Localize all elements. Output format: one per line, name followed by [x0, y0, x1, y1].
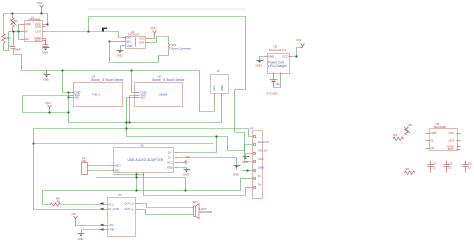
wire battery return	[274, 77, 281, 88]
svg-text:3.7V LiPo: 3.7V LiPo	[266, 92, 278, 96]
wire touch1 sig to left bus	[23, 95, 70, 97]
wire touch1 vcc drop chain	[68, 93, 70, 123]
svg-text:NC: NC	[25, 37, 29, 41]
svg-text:LiPo Charger: LiPo Charger	[268, 64, 288, 68]
battery B1	[270, 77, 278, 88]
wire U5 D+ riser	[178, 137, 217, 153]
wire vcc to chain	[23, 112, 69, 114]
wire long y195	[144, 195, 246, 197]
svg-text:SIG: SIG	[141, 96, 146, 100]
svg-text:PowerCell 3-4: PowerCell 3-4	[269, 48, 286, 52]
svg-text:GND: GND	[25, 22, 31, 26]
svg-text:GND: GND	[431, 131, 437, 135]
svg-text:C5: C5	[468, 162, 472, 166]
wire into pin row 2	[19, 25, 21, 32]
svg-text:1u: 1u	[449, 166, 452, 170]
wire x33 vertical	[33, 129, 35, 210]
svg-text:MIC+: MIC+	[115, 164, 122, 168]
svg-text:Grove_ 5 Touch Sense: Grove_ 5 Touch Sense	[91, 78, 124, 82]
svg-text:OUT_L-: OUT_L-	[125, 207, 135, 211]
svg-text:R5: R5	[409, 123, 413, 127]
capacitor C1	[11, 32, 16, 51]
VCC symbol sideways at U5	[184, 160, 189, 164]
junction y174.5 x136.5	[136, 174, 138, 176]
svg-text:U4: U4	[118, 193, 122, 197]
svg-text:D+: D+	[258, 183, 262, 187]
wire X1 to U5 mic-	[90, 170, 111, 172]
wire U2 vcc pin	[149, 38, 155, 40]
junction bus at x126.5	[126, 122, 128, 124]
U9 bottom pins	[273, 73, 275, 77]
wire U2 gnd pin down	[121, 46, 123, 51]
wire pin7 riser to y195	[245, 188, 247, 196]
svg-text:OUT: OUT	[139, 41, 145, 45]
ground at U9	[257, 61, 264, 63]
VCC symbol at U2	[153, 31, 157, 39]
svg-text:IN_L: IN_L	[109, 203, 115, 207]
module U7 box	[211, 75, 229, 94]
wire top rail y13	[4, 13, 48, 15]
svg-text:D-: D-	[168, 156, 171, 160]
svg-text:C3: C3	[433, 162, 437, 166]
spare trimmer R5	[404, 127, 410, 136]
wire R9 to U4 IN_L	[62, 204, 104, 206]
svg-text:MAX4466: MAX4466	[29, 17, 41, 21]
svg-text:Mode I/O: Mode I/O	[258, 140, 269, 144]
U7 pin stubs	[214, 94, 216, 98]
svg-text:GND: GND	[42, 51, 48, 55]
junction U1 VCC	[47, 24, 49, 26]
wire U1 GAIN BYP to cap	[45, 39, 47, 45]
svg-text:IN_COM: IN_COM	[109, 207, 120, 211]
svg-text:VCC: VCC	[449, 131, 455, 135]
svg-text:R4: R4	[394, 133, 398, 137]
wire U7 pin2 to gnd bus	[221, 98, 223, 123]
svg-text:+5V: +5V	[109, 223, 114, 227]
wire VCC rail to U1 VCC pin	[46, 14, 48, 25]
junction J1 pin5	[247, 170, 249, 172]
wire U7 pin1 route	[200, 71, 215, 112]
svg-text:GND: GND	[220, 85, 224, 91]
U1 pin GND2 right	[43, 26, 46, 28]
svg-text:U9: U9	[274, 45, 278, 49]
U1 pin OUT right	[43, 31, 46, 33]
svg-text:VCC: VCC	[139, 37, 145, 41]
svg-text:MAX4466: MAX4466	[434, 125, 446, 129]
wire left mic drop	[3, 14, 5, 34]
U2 divider	[135, 38, 137, 47]
svg-text:GND: GND	[258, 166, 264, 170]
U1 pin 3 left	[21, 39, 25, 41]
svg-text:D+: D+	[168, 151, 172, 155]
touch sensor U3 box	[74, 83, 123, 107]
ground at J1	[243, 157, 250, 160]
wire x143.5 drop	[143, 173, 145, 196]
wire x136.5 drop	[136, 173, 138, 191]
wire U5 vcc stub	[178, 162, 184, 164]
wire OUT_L+	[140, 204, 194, 208]
svg-text:GND: GND	[183, 172, 189, 176]
svg-text:VCC: VCC	[282, 55, 288, 59]
junction C1 top	[13, 31, 15, 33]
wire gnd bus y122	[69, 122, 222, 124]
svg-text:1u: 1u	[468, 166, 471, 170]
svg-text:IN2: IN2	[127, 40, 132, 44]
wire long line y142.5	[34, 143, 214, 145]
wire pin6 riser to y190	[240, 179, 242, 191]
wire U9 gnd	[260, 57, 264, 61]
wire U9 vcc to VBAT	[293, 48, 300, 57]
wire OUT_L-	[140, 210, 194, 215]
U4 pins left	[104, 204, 108, 206]
svg-text:Grove_ 5 Touch Sense: Grove_ 5 Touch Sense	[152, 78, 185, 82]
svg-text:VCC: VCC	[212, 85, 216, 91]
ground tap on touch rail	[44, 71, 51, 78]
resistor R9	[50, 203, 61, 206]
svg-text:OUT_L+: OUT_L+	[125, 202, 136, 206]
svg-text:B1: B1	[277, 82, 281, 86]
U8 pins right	[457, 133, 461, 135]
svg-text:BYP: BYP	[448, 147, 454, 151]
svg-text:GND: GND	[127, 44, 133, 48]
wire J1 pin5	[243, 170, 253, 172]
svg-text:VCC: VCC	[296, 38, 302, 42]
U5 pins right	[175, 152, 178, 154]
wire J1 pin2 detour	[228, 137, 253, 151]
svg-text:VCC: VCC	[150, 26, 156, 30]
U2 pins left	[123, 37, 126, 39]
svg-text:5V0: 5V0	[172, 43, 177, 47]
net flag 5V0	[168, 44, 170, 50]
wire touch rail y70.5	[22, 70, 200, 72]
U5 bottom pins	[136, 173, 138, 177]
svg-text:MIC: MIC	[82, 159, 87, 163]
svg-text:+5V: +5V	[71, 212, 76, 216]
svg-text:GND: GND	[117, 54, 123, 58]
U4 input arrows	[100, 202, 104, 204]
junction OUT riser	[88, 31, 90, 33]
junction touch1 pin1	[68, 92, 70, 94]
junction y190 x185.5	[185, 190, 187, 192]
svg-text:GND: GND	[242, 160, 248, 164]
U1 pin BYP right	[43, 40, 46, 42]
svg-text:NC: NC	[431, 146, 435, 150]
wire mic bottom loop	[4, 32, 9, 51]
wire riser to top net	[89, 17, 253, 162]
J1 pin circles	[253, 135, 255, 137]
VCC supply symbol top-left	[40, 5, 44, 14]
svg-text:VCC: VCC	[37, 1, 43, 5]
svg-text:THrL-x: THrL-x	[92, 93, 101, 97]
svg-text:U5: U5	[140, 144, 144, 148]
svg-text:10uF: 10uF	[15, 48, 21, 52]
wire drop to touch1 pin1	[63, 71, 69, 93]
wire pin3 stub	[69, 97, 70, 99]
svg-text:1u: 1u	[433, 166, 436, 170]
wire vcc to U4	[76, 225, 104, 227]
VCC symbol under touch1	[48, 105, 52, 113]
junction U9 vcc	[296, 56, 298, 58]
svg-text:VCC: VCC	[167, 161, 173, 165]
U1 pin 1 left	[21, 24, 25, 26]
svg-text:USB AUDIO ADAPTER: USB AUDIO ADAPTER	[128, 158, 164, 162]
svg-text:D-: D-	[258, 174, 261, 178]
wire J1 pin3 gnd	[246, 154, 253, 157]
junction bus at x129.5	[129, 122, 131, 124]
U3 pins	[70, 92, 74, 94]
svg-text:IN: IN	[25, 30, 28, 34]
svg-text:R6: R6	[406, 167, 410, 171]
U1 pin VCC right	[43, 24, 46, 26]
ground at U2	[117, 51, 124, 53]
connector J1 box	[253, 131, 263, 199]
junction D+ on y136.5	[216, 136, 218, 138]
svg-text:GND: GND	[268, 55, 274, 59]
junction touch1 pin3	[68, 97, 70, 99]
svg-text:VCC: VCC	[258, 157, 264, 161]
wire y190 corner into R9	[43, 191, 51, 205]
svg-text:C1: C1	[9, 44, 13, 48]
test point TP1	[102, 28, 107, 32]
junction y177 x136.5	[136, 177, 138, 179]
ground at U5 D-	[234, 166, 241, 168]
junction on rail at trimmer	[12, 13, 14, 15]
svg-text:GND: GND	[256, 64, 262, 68]
junction on rail at VCC stem	[41, 13, 43, 15]
ground at U5 gnd	[184, 170, 191, 173]
svg-text:GND: GND	[43, 78, 49, 82]
junction vcc stem	[49, 112, 51, 114]
wire U1 OUT long	[46, 32, 123, 38]
svg-text:IN: IN	[431, 139, 434, 143]
spare capacitor C5	[463, 161, 469, 173]
junction x33 at y143.5	[33, 143, 35, 145]
VCC symbol at U4	[74, 216, 78, 226]
svg-text:J1: J1	[250, 126, 253, 130]
svg-text:Boost Converter: Boost Converter	[172, 47, 192, 51]
spare resistor R4	[393, 137, 404, 141]
U5 pins left	[111, 165, 114, 167]
wire long bus y128.5	[34, 128, 249, 130]
amplifier U4 box	[108, 198, 136, 237]
svg-text:+5V: +5V	[185, 155, 190, 159]
wire J1 pin6	[241, 178, 253, 180]
touch sensor U6 box	[135, 83, 183, 107]
U8 pins left	[426, 133, 430, 135]
wire branch to y136.5	[127, 129, 228, 137]
svg-text:BYP: BYP	[35, 38, 41, 42]
power cell charger U9 box	[268, 54, 290, 74]
svg-text:C4: C4	[449, 162, 453, 166]
svg-text:VCC: VCC	[45, 101, 51, 105]
wire IN_COM from x33	[34, 209, 104, 211]
VCC symbol VBAT	[300, 44, 305, 48]
wire U2 out staircase to flag	[149, 37, 169, 44]
capacitor C2	[43, 45, 49, 48]
spare op-amp U8 box	[430, 129, 458, 151]
U2 pins right	[146, 38, 149, 40]
op-amp U1 MAX4466 box	[25, 21, 43, 42]
wire C1 bottom to touch loop	[14, 51, 22, 71]
junction y128.5 at x126.5	[126, 128, 128, 130]
svg-text:GND: GND	[167, 166, 173, 170]
ground under C2	[43, 48, 50, 51]
ground at U4	[78, 234, 85, 237]
svg-text:GND: GND	[233, 173, 239, 177]
wire drop to touch2 pin1	[132, 71, 135, 93]
junction vcc chain	[68, 112, 70, 114]
wire U1 wire into pin3 drop	[19, 32, 21, 40]
junction touch1 drop	[62, 70, 64, 72]
U9 pin left	[264, 56, 268, 58]
svg-text:MIC-: MIC-	[115, 169, 121, 173]
junction touch2 drop	[131, 70, 133, 72]
wire row y177	[97, 177, 186, 179]
spare capacitor C4	[444, 161, 450, 173]
wire flag return loop	[110, 42, 169, 63]
spare resistor R6	[405, 171, 416, 175]
junction y190 x136.5	[136, 190, 138, 192]
svg-text:OUT: OUT	[36, 30, 42, 34]
wire long y190	[43, 190, 241, 192]
wire X1 to U5 mic+	[90, 165, 111, 167]
svg-text:VOL I/O: VOL I/O	[258, 149, 268, 153]
svg-text:OUT: OUT	[449, 139, 455, 143]
wire J1 pin1	[249, 129, 253, 137]
svg-text:SIG: SIG	[75, 96, 80, 100]
U4 pins right	[136, 203, 140, 205]
junction bias row	[18, 31, 20, 33]
wire touch2 pin3 riser	[127, 98, 135, 129]
svg-text:GND: GND	[109, 228, 115, 232]
wire U5 spk row y174.5	[114, 174, 144, 176]
usb audio adapter U5 box	[114, 148, 174, 173]
wire U5 gnd pin	[178, 168, 187, 170]
U9 pin right	[289, 56, 293, 58]
svg-text:SPEAKER: SPEAKER	[200, 210, 213, 214]
wire node row y31.5	[9, 31, 21, 33]
microphone MK1	[2, 34, 6, 51]
svg-text:IN1: IN1	[127, 36, 132, 40]
microphone jack X1	[82, 163, 88, 175]
wire U5 D- to gnd	[178, 158, 237, 170]
wire gnd to U4	[82, 229, 104, 231]
wire J1 pin7	[246, 187, 253, 189]
svg-text:J2: J2	[217, 69, 220, 73]
left long vertical	[22, 96, 24, 113]
svg-text:GND: GND	[78, 237, 84, 241]
svg-text:R2: R2	[14, 19, 18, 23]
U1 pin 2 left	[21, 31, 25, 33]
spare capacitor C3	[428, 161, 434, 173]
junction TP net	[109, 41, 111, 43]
svg-text:SP1: SP1	[193, 200, 199, 204]
logic IC U2 box	[126, 37, 146, 49]
wire touch2 pin2 riser	[130, 96, 135, 123]
svg-text:SEdd8: SEdd8	[159, 93, 168, 97]
wire x185.5 vertical	[185, 178, 187, 191]
wire ghost upper net	[89, 8, 246, 10]
trimmer resistor R2	[11, 14, 17, 32]
svg-text:GND: GND	[35, 25, 41, 29]
U1 pin GAIN right	[43, 38, 46, 40]
U6 pins	[135, 92, 140, 94]
wire TP row to U2 pin2	[110, 41, 123, 43]
